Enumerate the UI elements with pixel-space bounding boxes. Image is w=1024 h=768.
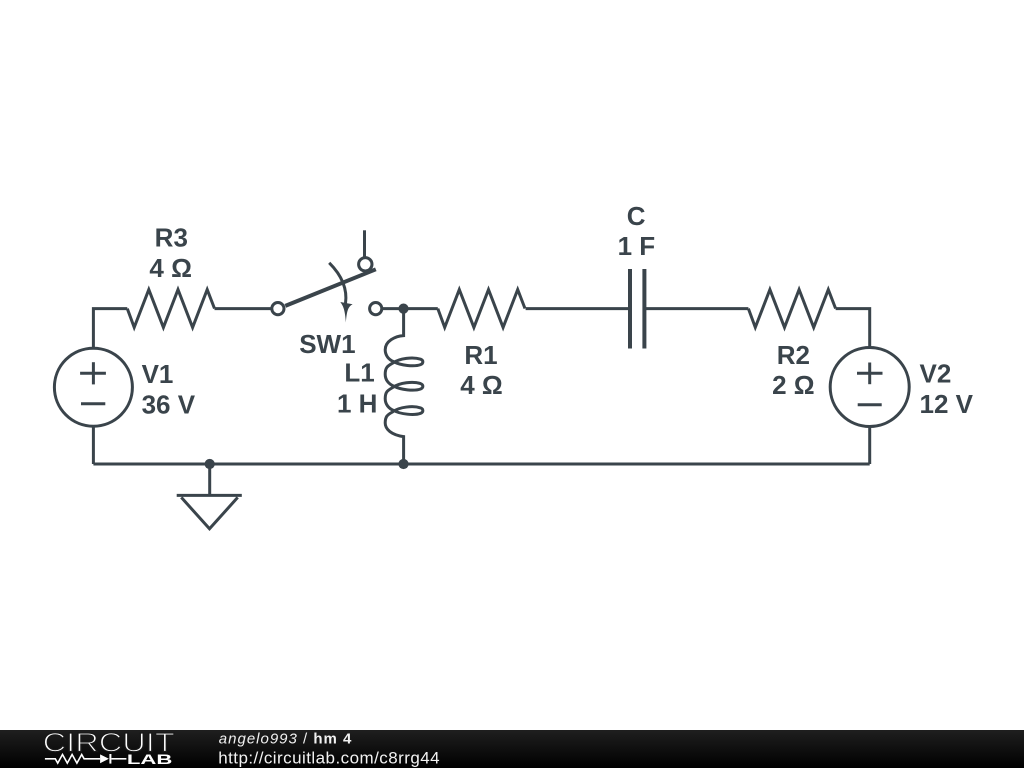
svg-text:R3: R3 [155, 223, 188, 253]
svg-text:C: C [627, 201, 646, 231]
svg-text:2 Ω: 2 Ω [772, 370, 815, 400]
svg-text:L1: L1 [344, 358, 374, 388]
svg-text:R1: R1 [464, 340, 497, 370]
svg-text:1 H: 1 H [337, 388, 377, 418]
svg-text:SW1: SW1 [299, 329, 355, 359]
svg-text:angelo993 / hm 4: angelo993 / hm 4 [219, 730, 353, 747]
svg-text:4 Ω: 4 Ω [149, 253, 192, 283]
svg-text:http://circuitlab.com/c8rrg44: http://circuitlab.com/c8rrg44 [218, 748, 440, 767]
svg-text:R2: R2 [777, 340, 810, 370]
svg-text:12 V: 12 V [920, 389, 974, 419]
svg-text:V2: V2 [920, 359, 952, 389]
svg-text:4 Ω: 4 Ω [460, 370, 503, 400]
svg-text:1 F: 1 F [618, 231, 656, 261]
svg-text:36 V: 36 V [142, 389, 196, 419]
svg-text:LAB: LAB [127, 751, 172, 767]
svg-text:V1: V1 [142, 359, 174, 389]
